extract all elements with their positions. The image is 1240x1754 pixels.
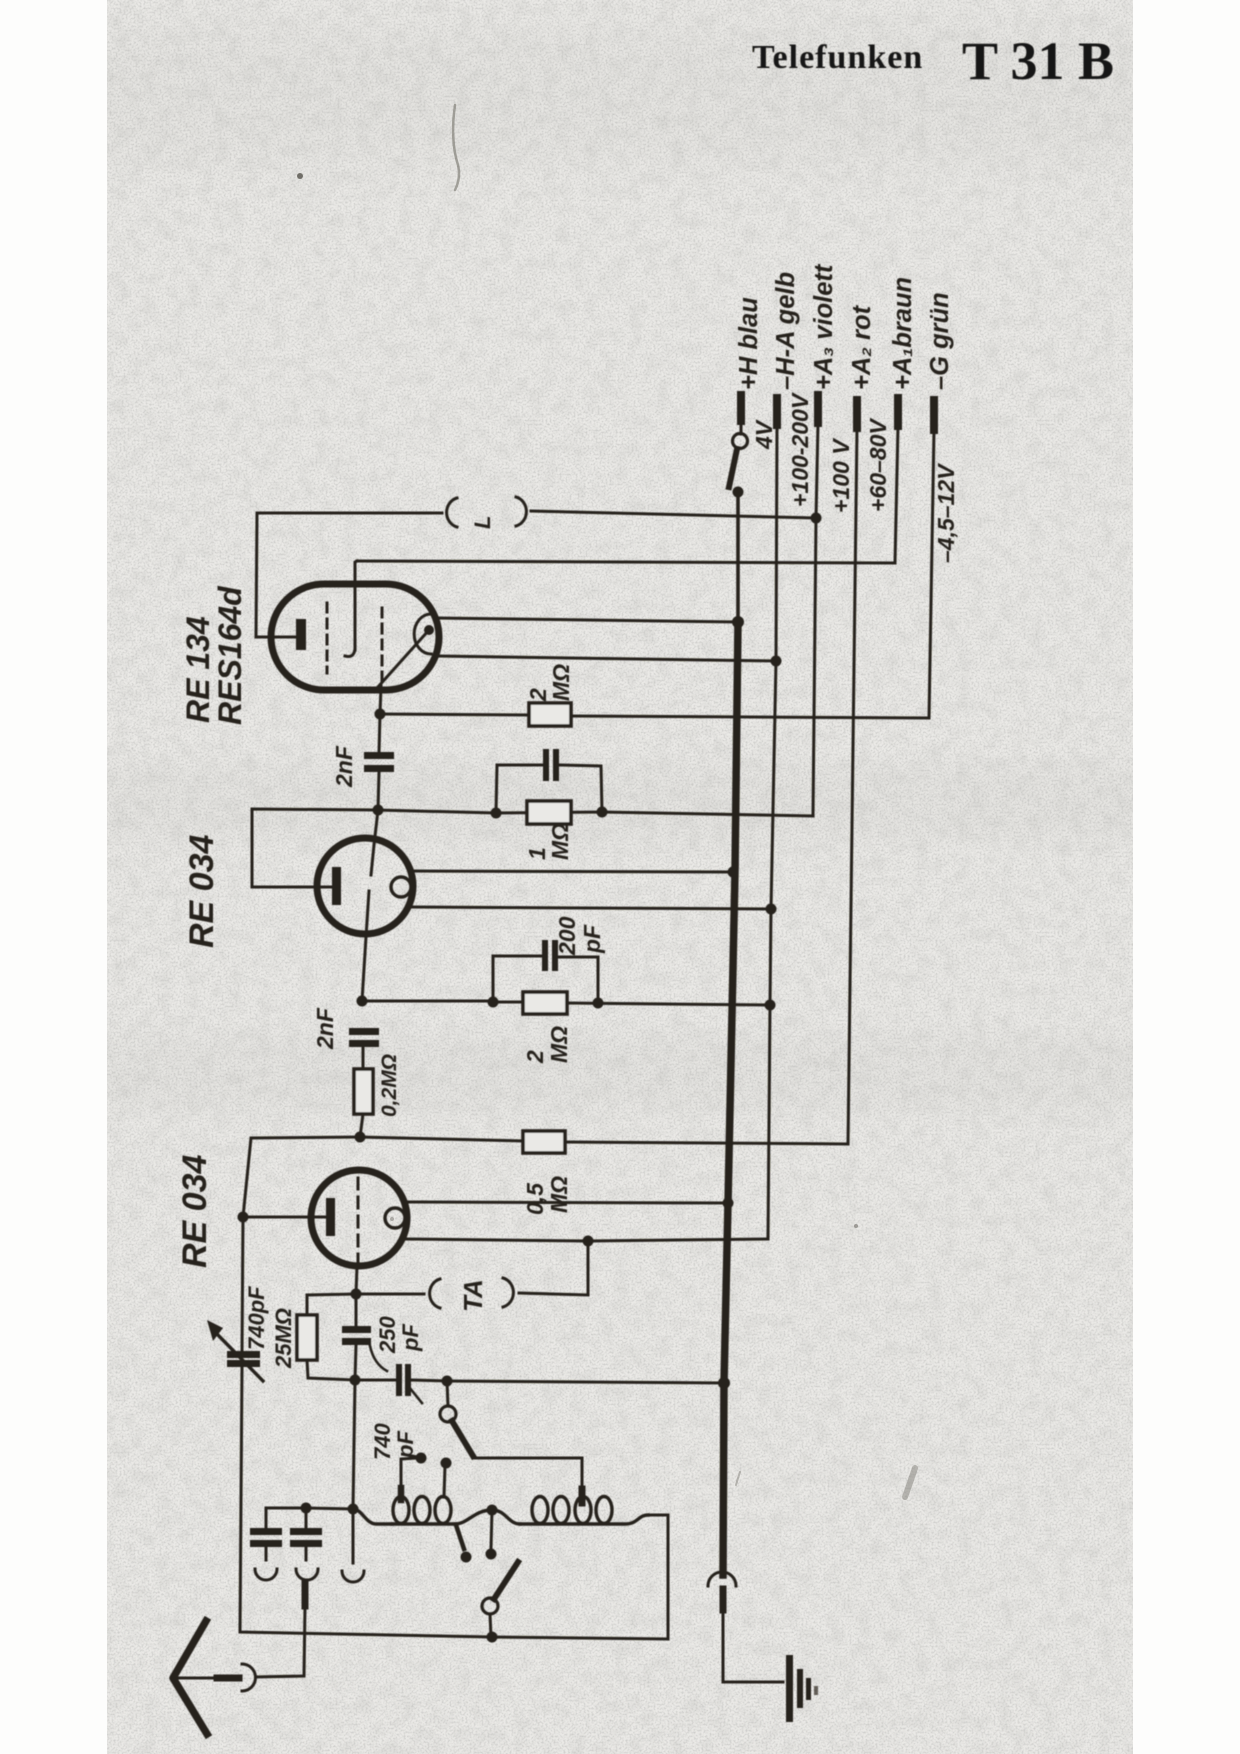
anode plate RE034a (332, 867, 341, 905)
wire coupling node to anode RE034a (252, 809, 378, 887)
node coil left (348, 1504, 359, 1515)
node grid 2M junction (375, 709, 386, 720)
wire RE134 grid down (379, 686, 381, 753)
svg-text:–4,5–12V: –4,5–12V (933, 463, 959, 563)
trimmer arrow (216, 1333, 263, 1381)
node detector (350, 1375, 361, 1386)
wire anode lead RE034b (243, 1216, 326, 1219)
wire left rail lower (240, 1367, 668, 1639)
antenna socket (242, 1664, 256, 1691)
wire rot supply line (848, 428, 857, 1144)
wire S2 to coil tap (473, 1458, 582, 1492)
filament diagonal RE134 (377, 630, 429, 688)
filament arc RE134 (414, 614, 431, 654)
wire R5 to rot (565, 1142, 848, 1144)
capacitor C3 plates (542, 940, 548, 971)
socket 50pF (255, 1569, 277, 1580)
wire gruen supply line (929, 430, 934, 718)
svg-text:4V: 4V (751, 419, 777, 450)
wire grid2 down (356, 1266, 357, 1294)
svg-text:+A₂ rot: +A₂ rot (848, 304, 876, 390)
grid dashes RE034b (357, 1178, 360, 1262)
terminal -G gruen pin (930, 400, 938, 430)
wire violett supply line (813, 423, 818, 816)
jack L left contact (447, 498, 457, 527)
node RE034a bus junction (728, 867, 739, 878)
terminal +A2 rot pin (853, 400, 861, 428)
capacitor C1 2nF plates (364, 752, 394, 759)
svg-text:2nF: 2nF (331, 745, 357, 788)
svg-text:+60–80V: +60–80V (865, 418, 891, 512)
svg-text:+A₃ violett: +A₃ violett (810, 263, 838, 390)
switch S3 contact from left coil (456, 1525, 464, 1549)
anode plate RE034b (326, 1198, 335, 1236)
bus socket (708, 1572, 736, 1586)
capacitor C5 250pF plates (342, 1326, 371, 1333)
svg-text:–G grün: –G grün (926, 292, 954, 390)
wire gelb supply line (768, 425, 777, 1239)
socket 200pF (296, 1569, 318, 1580)
node anode2 (238, 1212, 249, 1223)
antenna symbol (173, 1621, 207, 1734)
screen grid lead RE134 (355, 561, 357, 650)
wire C6 to switch node (411, 1380, 447, 1381)
node grid2 (351, 1289, 362, 1300)
wire RE034b to gelb (405, 1239, 768, 1241)
coil tap contact A (401, 1458, 417, 1497)
jack TA right contact (503, 1278, 513, 1307)
switch S3 contact from center tap (491, 1510, 492, 1548)
antenna plug bar (217, 1675, 239, 1682)
node RE134 gelb junction (771, 656, 782, 667)
node R2 right (597, 807, 608, 818)
wire C4 to R4 (362, 1047, 365, 1069)
pointer 250pF (370, 1346, 387, 1371)
grid dashes RE134 right (381, 608, 384, 682)
svg-text:+100 V: +100 V (828, 438, 854, 513)
wire detector node to C6 (355, 1379, 395, 1382)
pointer 740pF (409, 1387, 422, 1403)
bus plug pin (720, 1589, 727, 1610)
node RE034b bus junction (723, 1198, 734, 1209)
node coil center tap (487, 1505, 498, 1516)
switch S3 lower (482, 1598, 498, 1614)
bus thick chassis line (736, 492, 740, 622)
capacitor C4 2nF plates (349, 1028, 379, 1035)
svg-text:TA: TA (458, 1279, 488, 1312)
wire node2 to left rail (243, 1137, 360, 1217)
capacitor C2 branch (496, 765, 542, 813)
coil L2 right winding (532, 1497, 548, 1524)
svg-text:Telefunken: Telefunken (752, 39, 923, 76)
terminal +A1 braun pin (894, 398, 902, 426)
capacitor C6 740pF plates (396, 1364, 402, 1396)
wire L jack to violett (531, 511, 816, 518)
node L-violett junction (811, 513, 822, 524)
node TA junction (583, 1236, 594, 1247)
wire C1 to node (378, 772, 379, 810)
grid line RE034a (371, 810, 378, 875)
jack L right contact (516, 497, 526, 526)
wire left rail upper (242, 1217, 243, 1351)
resistor R2 1M (527, 801, 571, 824)
node bus RE134 (732, 616, 744, 628)
wire antenna feed line (266, 1508, 353, 1509)
coil L1 left winding (353, 1509, 392, 1524)
svg-text:25MΩ: 25MΩ (271, 1308, 296, 1369)
wire braun supply line (895, 426, 898, 563)
node coupling1 (373, 805, 384, 816)
node bus coil line (718, 1377, 730, 1389)
wire RE034b to bus (406, 1202, 728, 1203)
node ground-switch bottom (487, 1632, 498, 1643)
svg-text:+100-200V: +100-200V (787, 392, 813, 507)
filament circle RE034a (391, 877, 411, 897)
wire RE134 to gelb (438, 656, 776, 661)
wire RE134 to bus top (436, 618, 738, 622)
wire screen to braun (357, 561, 895, 563)
node 200pF top (301, 1503, 312, 1514)
resistor R5 0.5M (523, 1131, 565, 1153)
node R3 left (488, 997, 499, 1008)
anode plate RE134 (296, 619, 306, 650)
jack TA left contact (430, 1279, 440, 1308)
svg-text:T 31 B: T 31 B (962, 31, 1114, 91)
resistor R4 0.2M (354, 1069, 373, 1114)
wire RE034a to gelb (411, 907, 771, 909)
antenna plug pin (302, 1582, 309, 1606)
svg-text:2nF: 2nF (312, 1007, 338, 1050)
svg-text:RE 034: RE 034 (183, 835, 221, 948)
wire L jack to anode RE134 (256, 513, 442, 637)
node S1 bottom (733, 487, 744, 498)
svg-text:+A₁braun: +A₁braun (889, 277, 917, 390)
node R3 right (593, 998, 604, 1009)
node R2 left (491, 808, 502, 819)
wire node2 to R5 (360, 1137, 523, 1141)
node RE034a gelb junction (766, 904, 777, 915)
switch S2 wave upper (447, 1381, 448, 1406)
wire TA to anode wire (519, 1241, 588, 1295)
node switch top (442, 1376, 453, 1387)
svg-text:–H-A gelb: –H-A gelb (772, 272, 800, 390)
capacitor C3 200pF branch (493, 956, 541, 1002)
capacitor C2 plates (543, 749, 549, 781)
node R3 gelb junction (765, 1000, 776, 1011)
svg-text:L: L (470, 516, 495, 529)
smudge marks (297, 105, 915, 1497)
wire switch node to bus (447, 1381, 724, 1383)
resistor R3 2M (523, 992, 567, 1014)
svg-text:740pF: 740pF (244, 1286, 269, 1350)
resistor R6 25M loop (307, 1294, 356, 1315)
coil tap contact B (444, 1465, 445, 1497)
terminal +A3 violett pin (814, 395, 822, 423)
wire grid2 column to coil (353, 1380, 355, 1509)
wire R3 to gelb (567, 1003, 770, 1005)
capacitor C9 200pF (305, 1508, 308, 1528)
wire grid leak to resistor (380, 714, 529, 715)
wire grid2 to TA jack (356, 1293, 424, 1296)
capacitor C7 740pF trimmer plates (227, 1351, 260, 1358)
tube RE034a envelope (317, 838, 413, 934)
coil center tap rise (455, 1510, 520, 1524)
filament circle RE034b (385, 1208, 405, 1228)
wire coupling node right (378, 810, 813, 816)
wire antenna lead (256, 1606, 305, 1677)
capacitor C8 50pF (265, 1508, 268, 1528)
wire R1 to gruen (571, 716, 929, 718)
node coupling2 (355, 1132, 366, 1143)
terminal -H-A gelb pin (773, 398, 781, 425)
svg-text:0,2MΩ: 0,2MΩ (378, 1054, 401, 1117)
grid dashes RE134 left (326, 603, 329, 673)
tube RE134 envelope (271, 584, 439, 690)
tube RE034b envelope (311, 1170, 407, 1266)
wire grid1 to R3 (362, 1000, 493, 1003)
ground symbol (786, 1655, 793, 1722)
svg-text:+H blau: +H blau (735, 297, 763, 390)
coil tap plug right (579, 1489, 586, 1503)
resistor R1 2M (529, 703, 571, 726)
switch S1 power pivot (740, 421, 743, 434)
svg-text:RE 034: RE 034 (176, 1155, 214, 1268)
socket third (352, 1509, 355, 1563)
wire bus to ground (723, 1610, 783, 1682)
wire RE034a to bus (412, 871, 733, 872)
node grid1 (357, 996, 368, 1007)
terminal +H blau pin (737, 395, 745, 421)
wire R4 to node2 (360, 1114, 363, 1137)
